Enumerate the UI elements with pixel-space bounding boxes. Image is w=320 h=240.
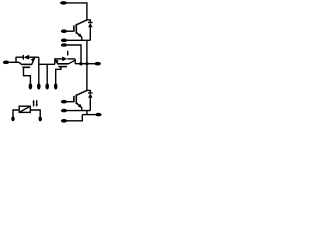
thermistor R1 diagonal (19, 106, 30, 112)
transistor T1 gate bar (73, 25, 75, 31)
diode D1 (88, 23, 92, 28)
wire E2 drop (46, 64, 48, 83)
terminal thermistor right (39, 116, 42, 121)
transistor T4 gate bar (73, 96, 75, 102)
diode D4 cathode bar (88, 92, 93, 94)
terminal E2 aux (45, 83, 49, 89)
wire T3 gate tail (24, 67, 31, 83)
terminal DC- aux (61, 119, 67, 123)
terminal AC (95, 62, 101, 66)
wire thermistor left leg (13, 110, 19, 116)
transistor T3 gate bar (22, 66, 30, 68)
wire N (9, 61, 19, 63)
wire T1 emitter down (81, 37, 83, 40)
DC+ terminal P (60, 1, 67, 5)
wire N riser (15, 57, 17, 63)
wire T2 gate tail (56, 67, 61, 84)
transistor T1 body bar (75, 24, 77, 34)
terminal AC aux (61, 43, 67, 47)
wire D3 left (16, 56, 23, 58)
transistor T3 emitter (32, 57, 35, 64)
transistor T3 collector (19, 62, 22, 64)
terminal E4 aux (61, 109, 67, 113)
arrow T1 emitter (78, 33, 82, 37)
terminal N (3, 61, 9, 65)
wire D4 anode (89, 98, 91, 111)
transistor T2 gate bar (58, 66, 67, 68)
wire D3 right (29, 56, 39, 58)
wire AC aux (67, 45, 81, 64)
thermistor R1 body (19, 106, 30, 112)
wire AC rail mid (86, 40, 88, 90)
arrow T4 emitter (78, 104, 82, 108)
terminal E1 aux (61, 39, 67, 43)
wire D1 anode (89, 27, 91, 40)
wire thermistor right leg (30, 110, 40, 116)
node AC junction (86, 62, 89, 65)
terminal G3 (29, 83, 33, 89)
wire E4 run (67, 110, 91, 112)
diode D2 cathode bar (67, 51, 69, 56)
diode D1 cathode bar (88, 22, 93, 24)
wire D1 top jog (87, 20, 90, 23)
wire DC- rail (86, 111, 88, 115)
diode D4 (88, 93, 92, 98)
wire T4 gate (67, 101, 74, 103)
wire DC- run (82, 114, 95, 116)
arrow T2 emitter (55, 59, 59, 63)
transistor T2 emitter (55, 59, 58, 64)
diode D3 cathode bar (22, 55, 24, 60)
diode D2 (62, 57, 67, 62)
wire M drop (38, 57, 40, 83)
terminal thermistor left (11, 116, 14, 121)
diode D3 (24, 55, 30, 60)
terminal DC- (95, 113, 101, 117)
wire M bus (39, 63, 55, 65)
arrow up temperature (33, 101, 35, 107)
terminal G2 (54, 83, 58, 89)
wire D2 left (55, 58, 63, 60)
terminal G4 (61, 100, 67, 104)
transistor T3 body bar (21, 63, 32, 65)
wire phase (75, 63, 87, 65)
wire T2 collector down (74, 59, 76, 64)
wire D2 right (67, 58, 75, 60)
wire D4 top jog (87, 90, 90, 93)
wire E1 run (67, 39, 91, 41)
arrow T3 emitter (31, 57, 35, 62)
transistor T2 collector (69, 60, 75, 64)
wire DC+ rail top (66, 3, 87, 20)
transistor T4 emitter (76, 103, 82, 108)
transistor T1 emitter (76, 32, 82, 37)
wire M riser (54, 58, 56, 64)
transistor T4 body bar (75, 94, 77, 104)
transistor T2 body bar (57, 63, 69, 65)
wire T1 gate (67, 30, 74, 32)
terminal G1 (61, 29, 67, 33)
terminal E3 aux (37, 83, 41, 89)
wire DC- aux drop (67, 115, 83, 121)
arrow down temperature (36, 100, 38, 106)
node AC aux junction (80, 62, 83, 65)
node C1 collector branch (76, 20, 87, 25)
wire T4 emitter down (81, 108, 83, 111)
node C4 collector branch (76, 90, 87, 95)
wire AC stub (87, 63, 95, 65)
